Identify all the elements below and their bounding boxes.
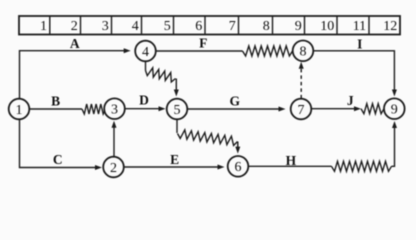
svg-text:11: 11 xyxy=(353,19,366,34)
svg-text:7: 7 xyxy=(298,103,305,118)
svg-text:C: C xyxy=(53,152,63,167)
svg-text:12: 12 xyxy=(383,19,397,34)
svg-text:E: E xyxy=(170,152,179,167)
svg-text:J: J xyxy=(347,93,354,108)
svg-text:1: 1 xyxy=(16,103,23,118)
svg-text:3: 3 xyxy=(102,19,109,34)
svg-text:3: 3 xyxy=(111,103,118,118)
svg-text:7: 7 xyxy=(229,19,236,34)
svg-text:G: G xyxy=(230,93,241,108)
svg-text:D: D xyxy=(139,92,149,107)
svg-text:A: A xyxy=(70,36,80,51)
svg-text:10: 10 xyxy=(320,19,334,34)
svg-text:6: 6 xyxy=(195,19,202,34)
svg-text:F: F xyxy=(199,36,207,51)
svg-text:4: 4 xyxy=(142,45,149,60)
svg-text:1: 1 xyxy=(40,19,47,34)
svg-text:6: 6 xyxy=(235,160,242,175)
svg-text:5: 5 xyxy=(164,19,171,34)
svg-text:B: B xyxy=(51,93,60,108)
svg-text:I: I xyxy=(357,37,362,52)
svg-text:2: 2 xyxy=(110,161,117,176)
svg-text:5: 5 xyxy=(174,103,181,118)
svg-text:9: 9 xyxy=(391,103,398,118)
svg-text:8: 8 xyxy=(300,45,307,60)
svg-text:8: 8 xyxy=(263,19,270,34)
svg-text:2: 2 xyxy=(71,19,78,34)
svg-text:H: H xyxy=(286,153,297,168)
svg-text:4: 4 xyxy=(132,19,139,34)
svg-text:9: 9 xyxy=(295,19,302,34)
